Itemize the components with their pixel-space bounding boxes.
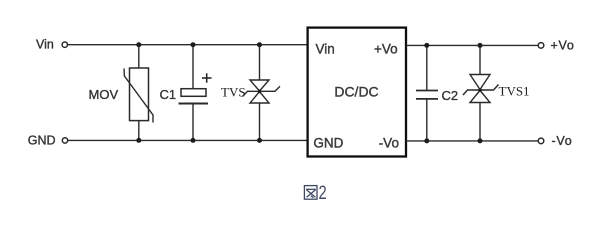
svg-text:+Vo: +Vo [551, 39, 575, 53]
node junction dot C2 bottom [424, 138, 429, 143]
capacitor C1 top plate [181, 89, 206, 97]
diode TVS1 top triangle [470, 75, 490, 90]
svg-text:-Vo: -Vo [552, 134, 573, 148]
varistor MOV body [130, 68, 149, 121]
wire MOV bottom [138, 121, 140, 140]
wire TVS1 bottom [479, 103, 481, 141]
node junction dot TVS top [257, 42, 262, 47]
diode TVS1 bottom triangle [470, 90, 490, 102]
node junction dot C1 top [191, 42, 196, 47]
diode TVS bottom triangle [250, 92, 269, 103]
converter U1 DC/DC box [308, 28, 406, 157]
wire TVS bottom [259, 103, 261, 140]
svg-text:TVS: TVS [221, 85, 246, 100]
node junction dot MOV bottom [136, 138, 141, 143]
wire MOV top [138, 45, 140, 68]
varistor MOV diagonal [124, 69, 153, 123]
wire TVS top [259, 45, 261, 80]
svg-text:MOV: MOV [89, 87, 119, 102]
svg-text:2: 2 [319, 183, 327, 204]
node junction dot TVS1 top [478, 43, 483, 48]
node junction dot TVS1 center [478, 88, 482, 92]
svg-text:DC/DC: DC/DC [334, 83, 378, 99]
wire top rail right [406, 44, 538, 46]
node junction dot C2 top [424, 43, 429, 48]
svg-text:GND: GND [28, 133, 56, 147]
svg-text:C2: C2 [442, 88, 459, 103]
svg-text:-Vo: -Vo [379, 135, 399, 150]
wire bottom rail right [406, 140, 538, 142]
node junction dot MOV top [136, 42, 141, 47]
wire C1 top [192, 45, 194, 89]
node junction dot C1 bottom [191, 138, 196, 143]
capacitor C2 top plate [416, 90, 438, 92]
wire C1 bottom [192, 104, 194, 141]
node junction dot TVS bottom [257, 138, 262, 143]
svg-text:Vin: Vin [36, 38, 54, 52]
node -Vo terminal [538, 138, 544, 144]
wire top rail left [68, 44, 307, 46]
node Vin terminal [62, 42, 67, 47]
wire bottom rail left [68, 139, 307, 141]
svg-text:+Vo: +Vo [374, 41, 398, 56]
capacitor C2 bottom plate [416, 98, 438, 100]
wire C2 top [426, 45, 428, 90]
svg-text:Vin: Vin [316, 41, 335, 56]
diode TVS top triangle [250, 80, 269, 91]
node junction dot TVS1 bottom [478, 138, 483, 143]
wire C2 bottom [426, 99, 428, 141]
svg-text:C1: C1 [160, 87, 177, 102]
label caption glyph tu [304, 186, 317, 200]
node junction dot TVS center [258, 90, 262, 94]
diode TVS bar [243, 86, 281, 96]
svg-text:GND: GND [313, 135, 343, 150]
wire TVS1 top [479, 45, 481, 74]
svg-text:TVS1: TVS1 [499, 84, 530, 99]
node GND terminal [62, 138, 67, 143]
diode TVS1 bar [463, 85, 499, 96]
node +Vo terminal [538, 43, 544, 49]
capacitor C1 polarity plus [202, 77, 212, 79]
capacitor C1 bottom plate [179, 103, 209, 105]
